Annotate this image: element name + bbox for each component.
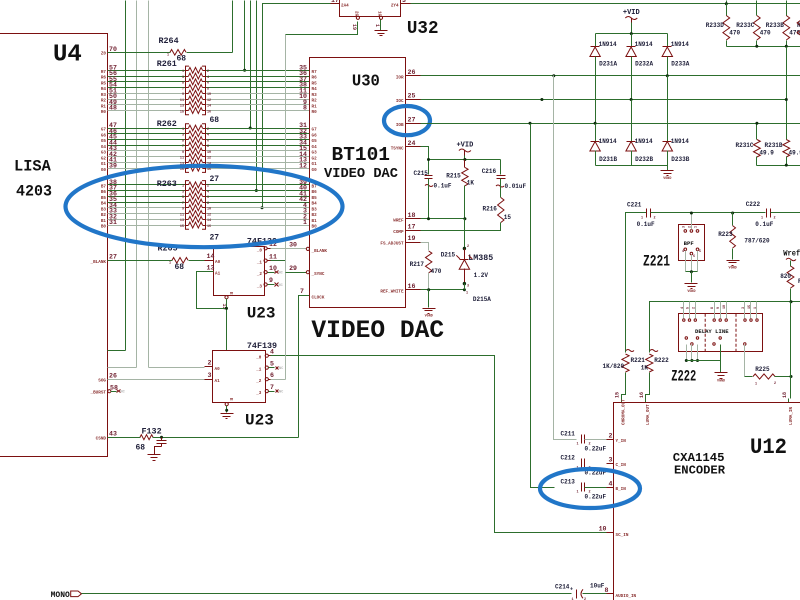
svg-text:NC: NC: [279, 391, 284, 395]
wire R7 row U4 pin 57 to U30 pin 35: [108, 70, 186, 72]
wire R3 row U4 pin 51 to U30 pin 11: [108, 93, 186, 95]
wire C222 to right edge: [771, 212, 800, 214]
svg-text:49.9: 49.9: [789, 150, 800, 157]
svg-text:70: 70: [109, 46, 117, 53]
wire B5 row U4 pin 36 to U30 pin 41: [108, 196, 186, 198]
delay line bottom pins: [685, 337, 687, 339]
svg-text:1: 1: [182, 70, 184, 74]
pin COMP 17 of U30: [406, 230, 421, 232]
svg-text:COMP: COMP: [393, 230, 404, 235]
pin 1G 1 of U32 bottom with ground: [379, 16, 382, 19]
svg-text:14: 14: [207, 105, 211, 109]
svg-text:7: 7: [300, 288, 304, 295]
wire R265 to U23 A0: [189, 260, 205, 262]
pin A1 3 of U23b: [205, 379, 213, 381]
svg-text:15: 15: [504, 214, 512, 221]
svg-text:R221: R221: [631, 357, 646, 364]
svg-text:B4: B4: [312, 202, 318, 207]
svg-text:R222: R222: [654, 357, 669, 364]
resistor R233C 470: [756, 4, 758, 16]
wire G3 row U4 pin 43 to U30 pin 15: [108, 150, 186, 152]
svg-text:R0: R0: [101, 110, 107, 115]
svg-text:MONO: MONO: [51, 591, 70, 600]
svg-text:R233B: R233B: [766, 22, 784, 29]
resistor R262 element 3 pins 5/6: [186, 139, 189, 141]
svg-text:1: 1: [182, 185, 184, 189]
svg-text:39: 39: [109, 162, 117, 169]
svg-text:A1: A1: [215, 271, 221, 276]
svg-text:G3: G3: [101, 151, 107, 156]
resistor R262 element 2 pins 3/4: [186, 133, 189, 135]
resistor 820 (R218): [790, 261, 792, 267]
svg-text:4: 4: [681, 307, 685, 309]
resistor R225: [744, 345, 746, 377]
chip U32 body (partial top): [340, 0, 401, 17]
svg-text:R3: R3: [101, 93, 107, 98]
svg-text:R5: R5: [312, 81, 318, 86]
svg-text:Z0: Z0: [101, 51, 107, 56]
wire U23b pin6 to sync bus: [271, 379, 286, 381]
svg-text:18: 18: [408, 212, 416, 219]
svg-text:5: 5: [687, 307, 691, 309]
svg-text:CSND: CSND: [96, 437, 107, 442]
wire U23b pin4 long run to U12 pin 10: [271, 356, 607, 533]
+VID rail over diodes: [596, 33, 668, 35]
svg-text:R7: R7: [312, 70, 318, 75]
svg-text:14: 14: [207, 253, 215, 260]
resistor R233B 470: [786, 4, 788, 16]
BPF top pins: [684, 230, 687, 233]
svg-text:R262: R262: [157, 119, 177, 129]
svg-text:27: 27: [210, 175, 220, 184]
ground VGND under diodes: [667, 166, 669, 171]
svg-text:NC: NC: [121, 391, 126, 395]
svg-text:R263: R263: [157, 179, 177, 189]
wire U32 2G to sync bus: [286, 22, 358, 35]
svg-text:25: 25: [408, 93, 416, 100]
wires delay line bottom pins to ground rail: [686, 345, 688, 361]
svg-text:A0: A0: [215, 367, 221, 372]
svg-text:_2: _2: [255, 379, 262, 384]
svg-text:U23: U23: [247, 305, 276, 323]
pin _2 10 of U23a (NC): [264, 271, 267, 274]
wire B3 row U4 pin 34 to U30 pin 4: [108, 207, 186, 209]
svg-text:TSYNC: TSYNC: [391, 147, 404, 152]
svg-text:1: 1: [641, 217, 643, 221]
wire Wref branch down to LUMA_IN: [790, 302, 792, 399]
svg-text:REF_WHITE: REF_WHITE: [380, 289, 404, 294]
svg-text:18: 18: [782, 392, 788, 398]
svg-text:12: 12: [299, 162, 307, 169]
pin _BLANK 30 of U30: [306, 247, 309, 250]
svg-text:7: 7: [182, 87, 184, 91]
svg-text:B3: B3: [312, 207, 318, 212]
svg-text:10: 10: [207, 93, 211, 97]
svg-text:3: 3: [467, 285, 469, 289]
svg-text:27: 27: [109, 254, 117, 261]
svg-text:0.22uF: 0.22uF: [585, 446, 607, 453]
svg-text:7: 7: [182, 145, 184, 149]
svg-text:12: 12: [207, 157, 211, 161]
svg-text:13: 13: [207, 264, 215, 271]
svg-text:12: 12: [207, 99, 211, 103]
svg-text:D233A: D233A: [671, 61, 689, 68]
svg-text:2: 2: [692, 307, 696, 309]
svg-text:Y_IN: Y_IN: [616, 439, 627, 444]
svg-text:_3: _3: [255, 391, 262, 396]
wire U23a E and A1 junction: [197, 272, 227, 309]
svg-text:R1: R1: [101, 104, 107, 109]
wire IOC drop to C212: [540, 98, 543, 101]
svg-text:2A4: 2A4: [341, 4, 349, 9]
svg-text:VGND: VGND: [717, 379, 725, 383]
svg-text:6: 6: [207, 139, 209, 143]
svg-text:Wref: Wref: [783, 250, 800, 259]
svg-text:C212: C212: [561, 455, 576, 462]
svg-text:C221: C221: [627, 202, 642, 209]
svg-text:SOG: SOG: [98, 379, 106, 384]
delay line top pins: [683, 319, 685, 321]
svg-text:16: 16: [207, 168, 211, 172]
wire U4 pin y368 to bus: [108, 367, 137, 369]
svg-text:0.1uF: 0.1uF: [755, 221, 773, 228]
svg-text:VGND: VGND: [687, 290, 695, 294]
resistor R261 element 7 pins 13/14: [186, 104, 189, 106]
svg-text:2: 2: [774, 217, 776, 221]
svg-text:U4: U4: [53, 42, 82, 69]
svg-text:R1: R1: [312, 104, 318, 109]
svg-text:B4: B4: [101, 202, 107, 207]
svg-text:2Y4: 2Y4: [391, 4, 399, 9]
svg-text:CHROMA_OUT: CHROMA_OUT: [622, 399, 627, 425]
wire B1 row U4 pin 32 to U30 pin 2: [108, 219, 186, 221]
wire U4 hidden pin y350 up bus: [108, 350, 126, 352]
svg-text:R2: R2: [312, 99, 318, 104]
resistor R231C 49.9: [756, 124, 758, 140]
resistor R263 element 4 pins 7/8: [186, 202, 189, 204]
svg-text:VGND: VGND: [729, 267, 737, 271]
svg-text:G7: G7: [101, 128, 107, 133]
wire C221 to C222 rail: [651, 212, 766, 214]
svg-text:10: 10: [207, 208, 211, 212]
resistor R261 element 2 pins 3/4: [186, 76, 189, 78]
svg-text:E: E: [228, 398, 233, 401]
sync bus light vertical: [285, 35, 287, 380]
resistor R261 element 6 pins 11/12: [186, 99, 189, 101]
svg-text:27: 27: [210, 234, 220, 243]
svg-text:13: 13: [180, 219, 184, 223]
svg-text:1: 1: [755, 383, 757, 387]
svg-text:4203: 4203: [16, 183, 52, 201]
svg-text:LUMA_IN: LUMA_IN: [789, 407, 794, 425]
pin E 15 of U23a bottom: [225, 296, 228, 299]
svg-text:9: 9: [182, 208, 184, 212]
svg-text:+VID: +VID: [456, 142, 473, 150]
svg-text:C214: C214: [555, 584, 570, 591]
svg-text:5: 5: [182, 82, 184, 86]
svg-text:43: 43: [109, 430, 117, 437]
svg-text:G5: G5: [312, 139, 318, 144]
wire R216 to COMP: [421, 223, 501, 231]
diode bottom rail to ground: [596, 165, 668, 167]
svg-text:WREF: WREF: [393, 218, 404, 223]
svg-text:_BLANK: _BLANK: [311, 249, 328, 254]
resistor R221 1K/820: [622, 354, 629, 372]
svg-text:R231C: R231C: [736, 142, 754, 149]
svg-text:U30: U30: [352, 73, 380, 92]
svg-text:D215: D215: [441, 252, 456, 259]
svg-text:C216: C216: [482, 168, 497, 175]
svg-text:CLOCK: CLOCK: [312, 295, 325, 300]
chip U23a 74F139 body: [214, 247, 265, 296]
diode D232B 1N914: [631, 100, 633, 142]
svg-text:9: 9: [182, 151, 184, 155]
svg-text:_1: _1: [255, 368, 262, 373]
pin _SYNC 29 of U30: [306, 271, 309, 274]
svg-text:ENCODER: ENCODER: [674, 464, 726, 478]
wire sync bus to U30 _SYNC pin 29: [286, 272, 307, 274]
svg-text:_BURST: _BURST: [90, 391, 107, 396]
svg-text:G7: G7: [312, 128, 318, 133]
wire G4 row U4 pin 44 to U30 pin 34: [108, 145, 186, 147]
svg-text:16: 16: [207, 225, 211, 229]
svg-text:R225: R225: [755, 366, 770, 373]
svg-text:26: 26: [109, 372, 117, 379]
wire G5 row U4 pin 45 to U30 pin 33: [108, 139, 186, 141]
svg-text:1K: 1K: [641, 365, 649, 372]
svg-text:2: 2: [654, 217, 656, 221]
svg-text:1: 1: [577, 443, 579, 447]
svg-text:15: 15: [748, 305, 752, 309]
svg-text:1N914: 1N914: [635, 138, 653, 145]
resistor R263 element 8 pins 15/16: [186, 225, 189, 227]
svg-text:6: 6: [207, 196, 209, 200]
wire G0 row U4 pin 39 to U30 pin 12: [108, 168, 186, 170]
svg-text:Z222: Z222: [671, 368, 696, 386]
diode D231A 1N914: [595, 34, 597, 47]
svg-text:R264: R264: [159, 36, 179, 46]
svg-text:3: 3: [682, 226, 686, 228]
svg-text:11: 11: [269, 253, 277, 260]
svg-text:3: 3: [182, 76, 184, 80]
ground VGND under delay line: [715, 372, 728, 374]
pin _0 12 of U23a: [264, 247, 267, 250]
svg-text:27: 27: [408, 116, 416, 123]
svg-text:9: 9: [717, 307, 721, 309]
resistor R263 element 2 pins 3/4: [186, 190, 189, 192]
svg-text:R0: R0: [312, 110, 318, 115]
wire R1 row U4 pin 49 to U30 pin 9: [108, 104, 186, 106]
svg-text:R216: R216: [483, 206, 498, 213]
svg-text:4: 4: [609, 480, 613, 487]
resistor R261 element 5 pins 9/10: [186, 93, 189, 95]
svg-text:U12: U12: [750, 435, 787, 460]
svg-text:D233B: D233B: [671, 156, 689, 163]
svg-text:24: 24: [408, 140, 416, 147]
diode D215 / LM385 reference: [464, 219, 466, 249]
wire C221 feed vertical: [626, 213, 647, 353]
svg-text:BPF: BPF: [684, 240, 695, 247]
svg-text:G4: G4: [312, 145, 318, 150]
wire U23a pin 11 to sync bus: [271, 260, 286, 262]
pin _3 9 of U23a (NC): [264, 283, 267, 286]
R233 top rail: [727, 3, 800, 5]
chip U23b 74F139 body: [213, 351, 266, 403]
svg-text:B_IN: B_IN: [616, 487, 627, 492]
svg-text:D231A: D231A: [599, 61, 617, 68]
svg-text:G1: G1: [312, 162, 318, 167]
svg-text:1: 1: [303, 219, 307, 226]
svg-text:R233C: R233C: [736, 22, 754, 29]
svg-text:11: 11: [180, 213, 184, 217]
pin E of U23b bottom with ground: [225, 403, 228, 406]
wire IOR rail: [421, 75, 800, 77]
svg-text:3: 3: [208, 372, 212, 379]
svg-text:68: 68: [175, 263, 185, 272]
svg-text:R261: R261: [157, 59, 177, 69]
svg-text:B2: B2: [312, 213, 318, 218]
pin A1 13 of U23a: [205, 271, 214, 273]
svg-text:B0: B0: [101, 225, 107, 230]
svg-text:NC: NC: [279, 272, 284, 276]
svg-text:IOB: IOB: [396, 123, 404, 128]
resistor R262 element 8 pins 15/16: [186, 168, 189, 170]
blue annotation big ellipse around R263 rows: [66, 166, 343, 247]
resistor R262 element 4 pins 7/8: [186, 145, 189, 147]
svg-text:3: 3: [609, 456, 613, 463]
svg-text:5: 5: [270, 360, 274, 367]
svg-text:1: 1: [466, 292, 468, 296]
pin IOC 25 of U30: [406, 99, 421, 101]
svg-text:1: 1: [167, 54, 169, 58]
ground under U23b: [221, 413, 234, 415]
pin 2A4 17 of U32: [331, 3, 340, 5]
R231 bottom rail: [757, 165, 800, 167]
wire bus to U23b A0: [149, 367, 205, 369]
svg-text:R6: R6: [101, 76, 107, 81]
svg-text:5: 5: [182, 139, 184, 143]
ground VGND under R223: [727, 260, 740, 262]
wire B2 row U4 pin 33 to U30 pin 3: [108, 213, 186, 215]
wire G6 row U4 pin 46 to U30 pin 32: [108, 133, 186, 135]
resistor R263 element 1 pins 1/2: [186, 184, 189, 186]
wire REF_WHITE row: [421, 289, 465, 291]
svg-text:IOR: IOR: [396, 75, 404, 80]
capacitor at F132 to ground: [160, 436, 163, 439]
svg-text:470: 470: [729, 30, 740, 37]
svg-text:1K/820: 1K/820: [603, 363, 625, 370]
svg-text:B5: B5: [101, 196, 107, 201]
svg-text:10uF: 10uF: [590, 583, 605, 590]
resistor R262 element 5 pins 9/10: [186, 150, 189, 152]
svg-text:VIDEO DAC: VIDEO DAC: [324, 167, 398, 182]
wire IOB rail: [421, 123, 800, 125]
svg-text:BT101: BT101: [332, 144, 391, 166]
svg-text:U23: U23: [245, 412, 274, 430]
diode D233A 1N914: [667, 34, 669, 47]
wire bus verticals near U4: [125, 1, 127, 351]
svg-text:R4: R4: [101, 87, 107, 92]
svg-text:A0: A0: [215, 260, 221, 265]
svg-text:R6: R6: [312, 76, 318, 81]
svg-text:AUDIO_IN: AUDIO_IN: [616, 594, 637, 599]
svg-text:8: 8: [711, 307, 715, 309]
svg-text:G4: G4: [101, 145, 107, 150]
svg-text:FS_ADJUST: FS_ADJUST: [380, 242, 404, 247]
svg-text:B1: B1: [312, 219, 318, 224]
svg-text:C_IN: C_IN: [616, 463, 627, 468]
svg-text:1: 1: [169, 262, 171, 266]
svg-text:3: 3: [182, 190, 184, 194]
pin WREF 18 of U30: [406, 218, 421, 220]
svg-text:19: 19: [408, 235, 416, 242]
svg-text:9: 9: [182, 93, 184, 97]
svg-text:2: 2: [467, 245, 469, 249]
svg-text:1N914: 1N914: [635, 41, 653, 48]
pin IOB 27 of U30: [406, 123, 421, 125]
svg-text:G0: G0: [312, 168, 318, 173]
svg-text:A1: A1: [215, 379, 221, 384]
svg-text:8: 8: [605, 587, 609, 594]
svg-text:2: 2: [207, 185, 209, 189]
svg-text:16: 16: [639, 392, 645, 398]
svg-text:R3: R3: [312, 93, 318, 98]
pin AUDIO_IN 8 of U12: [607, 593, 614, 595]
svg-text:_0: _0: [255, 356, 262, 361]
wire U23a pin 12 to U30 _BLANK: [271, 248, 307, 250]
wire B7 row U4 pin 38 to U30 pin 39: [108, 184, 186, 186]
svg-text:+: +: [570, 587, 573, 593]
wire R6 row U4 pin 56 to U30 pin 36: [108, 76, 186, 78]
pin _1 11 of U23a: [264, 259, 267, 262]
diode D233B 1N914: [667, 76, 669, 142]
svg-text:17: 17: [331, 0, 339, 4]
svg-text:B5: B5: [312, 196, 318, 201]
svg-text:G2: G2: [312, 156, 318, 161]
svg-text:16: 16: [207, 110, 211, 114]
resistor R262 element 1 pins 1/2: [186, 128, 189, 130]
svg-text:10: 10: [599, 526, 607, 533]
pin _2 6 of U23b: [265, 378, 268, 381]
wire bus verticals mid page: [232, 1, 234, 53]
svg-text:68: 68: [177, 55, 187, 64]
wire R4 row U4 pin 54 to U30 pin 38: [108, 87, 186, 89]
svg-text:Z221: Z221: [643, 253, 670, 271]
svg-text:R7: R7: [101, 70, 107, 75]
svg-text:D215A: D215A: [473, 296, 491, 303]
junction dots on bus taps: [243, 69, 246, 72]
resistor R233D 470: [726, 4, 728, 16]
svg-text:6: 6: [270, 372, 274, 379]
svg-text:IOC: IOC: [396, 99, 404, 104]
svg-text:0.1uF: 0.1uF: [637, 221, 655, 228]
svg-text:R215: R215: [446, 173, 461, 180]
svg-text:G2: G2: [101, 156, 107, 161]
svg-text:R231B: R231B: [765, 142, 783, 149]
svg-text:R4: R4: [312, 87, 318, 92]
wire TSYNC to C215 column: [421, 147, 429, 175]
wire 2Y4 rail to right edge: [411, 3, 800, 5]
svg-text:G6: G6: [101, 133, 107, 138]
svg-text:4: 4: [207, 190, 209, 194]
wire IOB drop to C213: [529, 122, 532, 125]
wire F132 to CLOCK riser: [153, 437, 299, 439]
resistor R262 element 6 pins 11/12: [186, 156, 189, 158]
svg-text:_BLANK: _BLANK: [90, 260, 107, 265]
svg-text:3: 3: [402, 0, 406, 4]
diode D231B 1N914: [595, 124, 597, 142]
chip U4 (LISA 4203) body: [0, 34, 108, 457]
